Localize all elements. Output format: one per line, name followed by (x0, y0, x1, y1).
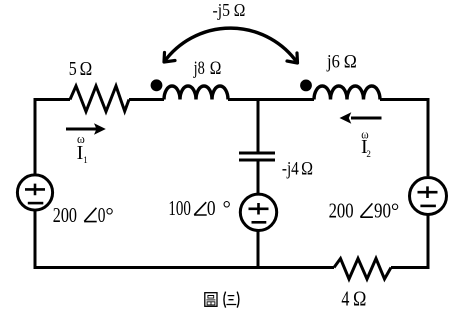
resistor 5-ohm (70, 86, 129, 112)
svg-text:0: 0 (98, 203, 106, 227)
svg-text:Ω: Ω (234, 0, 246, 20)
svg-text:200: 200 (329, 199, 354, 223)
current arrow I2 (pointing left) (340, 112, 382, 124)
inductor j6-ohm (314, 86, 380, 100)
capacitor -j4 (plates) (239, 153, 275, 160)
svg-text:-j5: -j5 (213, 0, 230, 20)
label 100 angle 0 deg (168, 196, 231, 220)
label 200 angle 90 deg (right source) (329, 199, 400, 223)
svg-text:100: 100 (168, 196, 191, 220)
svg-text:4: 4 (341, 287, 349, 311)
coupling dot (right, on j6 inductor) (300, 80, 312, 92)
wire: bottom horizontal from 4-ohm resistor to right corner (391, 266, 430, 269)
label -j5 ohm (213, 0, 246, 20)
svg-text:Ω: Ω (353, 287, 366, 311)
label phasor I2 (361, 127, 371, 159)
wire: left vertical upper segment (34, 100, 37, 175)
svg-text:°: ° (391, 199, 399, 223)
svg-text:0: 0 (207, 196, 216, 220)
caption: (three) (224, 292, 239, 308)
wire: bottom horizontal from left corner to 4-ohm resistor (34, 266, 335, 269)
label j6 ohm (326, 52, 357, 73)
svg-text:2: 2 (366, 149, 371, 159)
label 5 ohm (69, 58, 92, 80)
svg-text:5: 5 (69, 58, 77, 80)
label 4 ohm (341, 287, 366, 311)
svg-text:-j4: -j4 (282, 159, 299, 180)
label -j4 ohm (282, 159, 313, 180)
current arrow I1 (pointing right) (66, 123, 106, 135)
svg-text:1: 1 (83, 155, 88, 165)
wire: middle branch from top wire to capacitor (257, 100, 260, 152)
voltage source 200 angle 90 (right) (410, 178, 447, 215)
mutual coupling arc -j5 (double arrow) (164, 28, 298, 63)
resistor 4-ohm (334, 259, 391, 280)
svg-text:Ω: Ω (344, 52, 357, 73)
wire: top-right horizontal from j6 to right corner (380, 98, 430, 101)
inductor j8-ohm (164, 86, 228, 100)
wire: right vertical upper segment (427, 98, 430, 176)
caption: CJK character "tu" (figure) (205, 293, 217, 307)
svg-text:Ω: Ω (210, 58, 222, 79)
svg-text:j8: j8 (193, 58, 205, 79)
voltage source 200 angle 0 (left) (17, 175, 52, 210)
wire: middle branch from source to bottom wire (257, 231, 260, 270)
svg-text:Ω: Ω (80, 58, 93, 80)
wire: top middle between j8 and j6 inductors (junction with middle branch) (228, 98, 314, 101)
svg-text:°: ° (105, 203, 113, 227)
wire: right vertical lower segment (427, 216, 430, 270)
svg-text:200: 200 (53, 203, 77, 227)
coupling dot (left, on j8 inductor) (151, 79, 163, 91)
wire: left vertical lower segment (34, 211, 37, 269)
svg-text:j6: j6 (326, 52, 340, 73)
voltage source 100 (middle) (240, 194, 276, 230)
svg-text:90: 90 (374, 199, 391, 223)
wire: between 5-ohm resistor and j8 inductor (129, 98, 164, 101)
svg-text:Ω: Ω (301, 159, 313, 180)
wire: middle branch from capacitor to 100-volt source (257, 161, 260, 193)
label j8 ohm (193, 58, 221, 79)
svg-text:°: ° (223, 196, 231, 220)
label phasor I1 (77, 132, 88, 165)
wire: top-left horizontal to 5-ohm resistor (34, 98, 71, 101)
label 200 angle 0 deg (left source) (53, 203, 114, 227)
